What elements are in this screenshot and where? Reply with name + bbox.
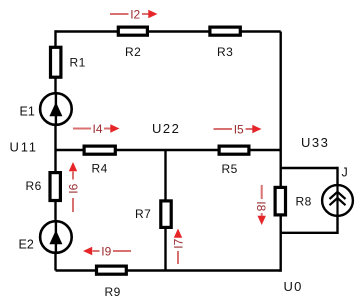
current arrow I5 [214, 125, 262, 133]
source E2 [40, 221, 72, 253]
resistor R1 [51, 47, 61, 77]
resistor R7 [161, 201, 171, 228]
svg-text:R7: R7 [135, 207, 151, 221]
wire left (E1/E2 branch) [54, 30, 56, 270]
resistor R4 [84, 146, 115, 154]
svg-text:I6: I6 [67, 183, 81, 193]
wire right [280, 32, 282, 272]
current arrow I7 [174, 229, 182, 265]
svg-text:U11: U11 [10, 140, 38, 155]
resistor R8 [275, 187, 285, 215]
svg-text:I2: I2 [130, 8, 140, 22]
resistor R9 [97, 266, 127, 274]
current arrow I2 [110, 10, 158, 18]
svg-text:I7: I7 [172, 238, 186, 248]
svg-text:R5: R5 [222, 162, 238, 176]
wire bottom [56, 269, 281, 271]
wire middle horizontal (U11 to U33) [56, 149, 281, 151]
resistor R3 [210, 27, 240, 35]
svg-text:I4: I4 [92, 122, 102, 136]
svg-text:U33: U33 [301, 135, 329, 150]
current arrow I6 [69, 162, 77, 212]
svg-text:R1: R1 [70, 56, 86, 70]
wire J branch bottom stub [281, 232, 338, 234]
wire J branch top stub [281, 167, 338, 169]
svg-text:R6: R6 [26, 179, 42, 193]
wire J branch right vertical [336, 167, 338, 234]
resistor R6 [50, 173, 60, 201]
svg-text:R8: R8 [296, 195, 312, 209]
current arrow I8 [258, 185, 266, 225]
svg-text:I9: I9 [101, 245, 111, 259]
svg-text:R4: R4 [92, 162, 108, 176]
current arrow I4 [73, 124, 120, 132]
svg-text:J: J [342, 166, 348, 180]
svg-text:R2: R2 [125, 45, 141, 59]
svg-text:I8: I8 [254, 201, 268, 211]
resistor R5 [219, 146, 249, 154]
svg-text:R3: R3 [217, 45, 233, 59]
current arrow I9 [83, 247, 131, 255]
svg-text:R9: R9 [105, 285, 121, 299]
source E1 [40, 93, 72, 125]
svg-text:U22: U22 [152, 121, 180, 136]
svg-text:U0: U0 [284, 279, 303, 294]
svg-text:I5: I5 [234, 123, 244, 137]
svg-text:E2: E2 [19, 238, 34, 252]
resistor R2 [118, 27, 147, 35]
wire middle vertical (U22 to bottom) [164, 150, 166, 271]
wire top (E1 branch top rail) [56, 30, 281, 32]
svg-text:E1: E1 [20, 105, 35, 119]
current source J [322, 185, 353, 216]
